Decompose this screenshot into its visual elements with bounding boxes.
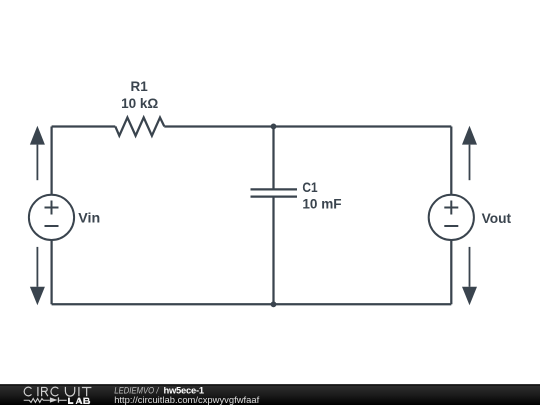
annotation arrow up (Vout) [462, 126, 477, 181]
wire capacitor branch top [272, 127, 274, 190]
wire resistor to top-right [164, 125, 451, 127]
annotation arrow down (Vout) [462, 247, 477, 305]
CircuitLab logo text LAB (hand drawn) [68, 398, 90, 404]
wire bottom [52, 303, 452, 305]
svg-text:C1: C1 [302, 179, 317, 195]
wire right vertical [450, 127, 452, 305]
wire capacitor branch bottom [272, 197, 274, 305]
wire left vertical [50, 127, 52, 305]
svg-text:http://circuitlab.com/cxpwyvgf: http://circuitlab.com/cxpwyvgfwfaaf [114, 394, 259, 405]
svg-text:10 mF: 10 mF [302, 196, 342, 212]
voltage source V1 (Vin) [29, 195, 74, 240]
CircuitLab logo resistor squiggle [24, 399, 50, 403]
svg-text:Vout: Vout [482, 210, 512, 226]
svg-text:R1: R1 [131, 78, 148, 94]
wire top-left to resistor [52, 125, 116, 127]
capacitor C1 [251, 189, 298, 196]
voltage source V2 (Vout) [429, 195, 474, 240]
footer bar [0, 384, 540, 405]
resistor R1 [115, 118, 164, 136]
svg-text:10 kΩ: 10 kΩ [121, 95, 158, 111]
svg-text:Vin: Vin [78, 210, 100, 226]
CircuitLab logo diode [50, 397, 67, 402]
node junction top [271, 124, 277, 130]
annotation arrow up (Vin) [30, 126, 45, 181]
node junction bottom [271, 301, 277, 307]
annotation arrow down (Vin) [30, 247, 45, 305]
CircuitLab logo text CIRCUIT (hand drawn strokes) [24, 387, 91, 396]
